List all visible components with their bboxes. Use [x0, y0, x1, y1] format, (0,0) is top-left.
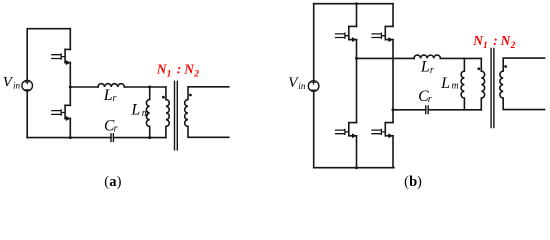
svg-text:r: r: [114, 124, 118, 135]
label Cr (a): [104, 117, 118, 134]
svg-text::: :: [177, 61, 181, 76]
transformer T1 primary winding (a): [166, 87, 169, 138]
svg-text:L: L: [440, 75, 450, 92]
transistor Q1 (a top): [52, 29, 71, 87]
svg-text:b: b: [409, 174, 417, 190]
svg-text:): ): [417, 174, 422, 190]
svg-text::: :: [493, 33, 497, 48]
svg-text:L: L: [130, 102, 140, 119]
wire: Lr to primary top (a): [124, 86, 165, 88]
inductor Lm (a): [146, 87, 149, 138]
wire: bottom rail left of Cr (a): [27, 137, 111, 139]
label N1 : N2 (a): [156, 61, 199, 79]
node: right leg midpoint (b): [392, 108, 395, 111]
wire: lower left rail (b): [313, 92, 315, 168]
inductor Lm (b): [461, 58, 464, 109]
label Vin (a): [3, 75, 21, 91]
transformer T2 secondary winding + output wires (b): [500, 58, 545, 110]
svg-text:): ): [117, 174, 122, 190]
node: bridge midpoint (a): [69, 86, 72, 89]
node: Lm bottom junction (a): [148, 136, 151, 139]
transistor Q1 (b left top): [336, 4, 357, 59]
svg-text:in: in: [298, 81, 306, 91]
transformer T2 primary winding (b): [481, 58, 484, 109]
label N1 : N2 (b): [472, 33, 515, 51]
transistor Q4 (b right bottom): [372, 110, 393, 168]
svg-text:r: r: [428, 94, 432, 105]
svg-text:1: 1: [483, 41, 488, 51]
inductor Lr (b): [414, 55, 440, 58]
polarity dot primary (b): [477, 67, 480, 70]
label (b): [404, 174, 422, 190]
transformer T1 core (a): [175, 81, 178, 150]
node: Lm top junction (a): [148, 86, 151, 89]
wire: upper left rail (b): [313, 4, 315, 81]
svg-text:2: 2: [193, 69, 199, 79]
label Lm (b): [440, 75, 459, 92]
label Cr (b): [418, 88, 432, 105]
wire: Cr to primary bottom (b): [428, 109, 481, 111]
label Vin (b): [288, 75, 306, 91]
label Lr (b): [420, 58, 434, 76]
svg-text:1: 1: [167, 69, 172, 79]
wire: bottom rail (b): [314, 167, 394, 169]
wire: bottom rail right of Cr (a): [113, 137, 165, 139]
inductor Lr (a): [98, 84, 124, 87]
transformer T1 secondary winding + output wires (a): [185, 87, 229, 138]
wire: lower left rail (a): [26, 91, 28, 137]
svg-text:L: L: [103, 87, 113, 104]
svg-text:in: in: [13, 81, 21, 91]
transistor Q3 (b left bottom): [336, 58, 357, 167]
wire: left leg midpoint to Lr (b): [357, 57, 415, 59]
label Lm (a): [130, 102, 149, 120]
svg-text:m: m: [452, 81, 459, 92]
transformer T2 core (b): [491, 49, 494, 128]
capacitor Cr (b): [426, 106, 428, 114]
polarity dot secondary (a): [189, 94, 192, 97]
svg-text:L: L: [420, 58, 430, 75]
voltage source Vin (a): [22, 80, 33, 91]
svg-text:r: r: [113, 93, 117, 104]
wire: midpoint to Lr (a): [70, 86, 98, 88]
label Lr (a): [103, 87, 117, 104]
wire: top rail + upper left rail (a): [27, 29, 70, 81]
wire: right leg midpoint to Cr (b): [393, 109, 426, 111]
node: top rail left-leg tap (b): [355, 2, 358, 5]
node: bottom rail junction (a): [69, 136, 72, 139]
node: left leg midpoint (b): [355, 57, 358, 60]
wire: Lr to primary top (b): [440, 57, 481, 59]
label (a): [104, 174, 121, 190]
wire: top rail (b): [314, 3, 393, 5]
capacitor Cr (a): [111, 134, 113, 142]
transistor Q2 (b right top): [372, 4, 393, 110]
svg-text:r: r: [430, 65, 434, 76]
polarity dot secondary (b): [504, 65, 507, 68]
svg-text:2: 2: [510, 41, 516, 51]
transistor Q2 (a bottom): [52, 87, 71, 138]
voltage source Vin (b): [308, 81, 319, 92]
polarity dot primary (a): [162, 96, 165, 99]
svg-text:m: m: [142, 108, 149, 119]
node: bottom rail left-leg tap (b): [355, 166, 358, 169]
